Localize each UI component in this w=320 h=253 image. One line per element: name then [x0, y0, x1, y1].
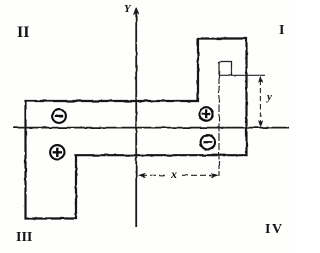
- label quadrant IV: [265, 222, 284, 238]
- minus symbol, quadrant IV area: [201, 135, 215, 149]
- centroid vertical reference line (x = xbar), solid along notch: [218, 62, 220, 77]
- X axis: [13, 127, 289, 129]
- label quadrant III: [16, 230, 32, 246]
- centroid vertical reference line (x = xbar), dashed lower part: [218, 76, 220, 176]
- y dimension line (dashed with arrows): [259, 80, 261, 124]
- section outline (Z-shaped cross-section): [26, 39, 247, 219]
- plus symbol, quadrant III area: [50, 145, 64, 159]
- centroid horizontal reference line (y = ybar): [219, 74, 265, 76]
- x dimension line right segment (dashed): [182, 174, 215, 176]
- Y axis arrowhead: [133, 7, 139, 15]
- Y axis: [135, 11, 137, 227]
- label Y (axis): [124, 3, 131, 15]
- y dimension top arrow: [258, 76, 263, 83]
- label x dimension: [171, 167, 177, 182]
- minus symbol, quadrant II area: [52, 109, 66, 123]
- centroid marker square: [219, 62, 232, 76]
- x dimension left arrow: [138, 173, 146, 178]
- plus symbol, quadrant I area: [199, 107, 213, 121]
- label y dimension: [267, 91, 272, 103]
- x dimension line left segment (dashed): [141, 174, 168, 176]
- x dimension right arrow: [211, 173, 219, 178]
- y dimension bottom arrow: [258, 120, 263, 127]
- label quadrant II: [17, 24, 29, 42]
- label quadrant I: [279, 23, 284, 39]
